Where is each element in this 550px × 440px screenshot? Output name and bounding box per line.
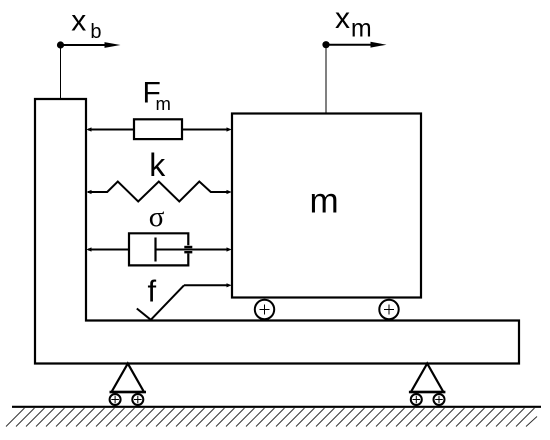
svg-text:x: x <box>71 5 86 38</box>
svg-text:m: m <box>351 15 372 43</box>
svg-text:σ: σ <box>149 201 165 233</box>
svg-text:m: m <box>310 182 339 221</box>
svg-text:b: b <box>90 21 101 43</box>
svg-text:k: k <box>149 147 166 183</box>
svg-text:m: m <box>156 93 171 114</box>
svg-text:f: f <box>148 274 157 309</box>
svg-text:x: x <box>335 2 350 35</box>
